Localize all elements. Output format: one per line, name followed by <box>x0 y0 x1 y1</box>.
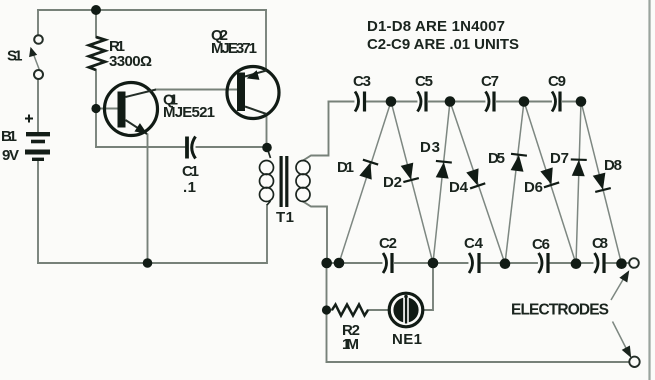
svg-text:D5: D5 <box>488 150 505 167</box>
svg-text:MJE371: MJE371 <box>211 40 257 57</box>
svg-text:T1: T1 <box>276 209 294 226</box>
svg-text:C5: C5 <box>415 73 433 90</box>
svg-text:ELECTRODES: ELECTRODES <box>511 302 609 319</box>
svg-text:D3: D3 <box>420 139 440 156</box>
svg-text:D7: D7 <box>550 150 569 167</box>
svg-text:B1: B1 <box>1 128 17 145</box>
svg-text:C7: C7 <box>481 73 499 90</box>
svg-text:C1: C1 <box>182 163 199 180</box>
svg-text:C6: C6 <box>532 236 550 253</box>
svg-text:D8: D8 <box>604 157 622 174</box>
svg-text:D1: D1 <box>337 159 354 176</box>
svg-text:NE1: NE1 <box>392 331 422 348</box>
svg-text:MJE521: MJE521 <box>163 104 215 121</box>
svg-text:C3: C3 <box>353 73 371 90</box>
svg-text:S1: S1 <box>7 48 23 65</box>
svg-text:C4: C4 <box>464 235 484 252</box>
svg-text:1M: 1M <box>342 336 359 353</box>
svg-text:C8: C8 <box>592 235 608 252</box>
svg-text:9V: 9V <box>2 147 19 164</box>
svg-text:D4: D4 <box>449 179 469 196</box>
svg-text:D2: D2 <box>383 174 402 191</box>
svg-text:.1: .1 <box>183 179 196 196</box>
svg-text:C2: C2 <box>379 235 397 252</box>
svg-text:D6: D6 <box>524 179 543 196</box>
svg-text:C9: C9 <box>548 73 566 90</box>
svg-text:C2-C9 ARE .01 UNITS: C2-C9 ARE .01 UNITS <box>367 36 519 53</box>
svg-text:D1-D8 ARE 1N4007: D1-D8 ARE 1N4007 <box>367 18 505 35</box>
svg-text:3300Ω: 3300Ω <box>109 53 152 70</box>
